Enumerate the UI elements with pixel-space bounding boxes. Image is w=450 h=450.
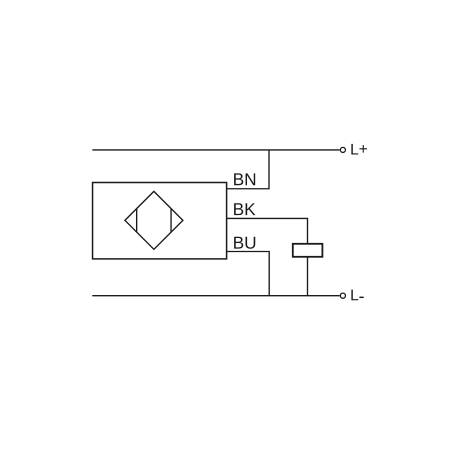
label L+: [351, 144, 358, 155]
sensor B1: diamond symbol: [125, 191, 183, 249]
sensor B1: left chord: [136, 209, 138, 233]
label BU: [234, 237, 255, 249]
label BK: [234, 203, 255, 215]
wire BN (sensor to L+ rail): [227, 150, 270, 189]
terminal L-: [340, 293, 345, 298]
terminal L+: [340, 147, 345, 152]
sensor B1: right chord: [170, 209, 172, 233]
load R1: [293, 244, 323, 257]
wire BK (output to load): [227, 218, 308, 243]
wire: L+ supply rail: [92, 149, 339, 151]
wire: load to L- rail: [307, 257, 309, 296]
wire BU (sensor to L- rail): [227, 252, 270, 296]
label L-: [351, 290, 358, 301]
sensor B1: body outline: [93, 183, 227, 259]
wire: L- supply rail: [92, 295, 339, 297]
label BN: [234, 173, 255, 185]
